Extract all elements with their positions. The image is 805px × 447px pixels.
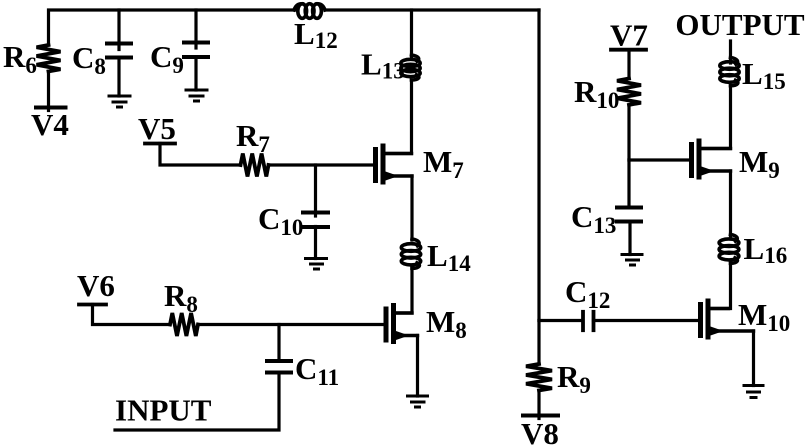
wire C8 drop — [117, 10, 120, 50]
capacitor C13 — [617, 208, 641, 222]
wire V7 to R10 — [627, 50, 630, 79]
wire C11 to INPUT — [115, 373, 279, 431]
wire R7 to M7 gate — [269, 163, 374, 166]
inductor L14 — [401, 239, 420, 268]
wire M10 source to ground — [752, 331, 755, 386]
resistor R9 — [526, 364, 552, 390]
wire M9 gate lead — [629, 158, 689, 161]
wire L13 to M7 drain — [384, 80, 412, 154]
svg-text:V6: V6 — [77, 268, 115, 303]
ground C10 — [306, 259, 327, 270]
transistor M7 — [376, 146, 413, 182]
capacitor C8 — [107, 44, 131, 58]
wire M7 source to L14 — [410, 176, 413, 240]
wire C8 to ground — [117, 58, 120, 97]
svg-text:OUTPUT: OUTPUT — [675, 7, 805, 42]
wire R10 to junction — [627, 105, 630, 160]
inductor L16 — [719, 235, 739, 264]
capacitor C9 — [184, 43, 208, 58]
wire OUTPUT to L15 — [729, 41, 732, 63]
wire L15 to M9 drain — [699, 86, 731, 149]
wire C11 drop — [277, 325, 280, 362]
ground C8 — [109, 96, 130, 107]
wire M8 source to ground — [416, 336, 419, 397]
wire junction to C13 — [627, 160, 630, 208]
transistor M10 — [701, 301, 754, 337]
svg-text:V8: V8 — [521, 416, 559, 447]
ground C13 — [622, 255, 642, 266]
inductor L13 — [401, 55, 420, 80]
wire C10 to ground — [314, 227, 317, 259]
inductor L12 — [294, 4, 325, 19]
terminal V5 — [145, 142, 175, 146]
inductor L15 — [720, 58, 739, 86]
terminal V8 — [523, 414, 558, 418]
resistor R6 — [37, 45, 61, 71]
wire right column from rail — [537, 10, 540, 321]
wire L13 drop — [410, 10, 413, 57]
wire L14 to M8 drain — [394, 268, 412, 313]
ground M10 — [744, 386, 763, 398]
wire R6 to V4 — [47, 71, 50, 110]
capacitor C11 — [267, 361, 291, 373]
terminal V4 — [36, 106, 66, 110]
svg-text:V5: V5 — [138, 111, 176, 146]
terminal V7 — [611, 48, 646, 52]
wire junction to C12 — [539, 319, 582, 322]
wire V5 to R7 — [160, 144, 241, 166]
wire top rail left segment — [49, 10, 297, 45]
resistor R7 — [241, 154, 269, 177]
transistor M8 — [386, 306, 418, 342]
wire C9 drop — [194, 10, 197, 48]
svg-text:INPUT: INPUT — [115, 393, 212, 428]
wire R8 to M8 gate — [198, 323, 384, 326]
wire C10 drop — [314, 165, 317, 216]
wire C12 to M10 gate — [594, 319, 699, 322]
capacitor C12 — [583, 312, 594, 330]
wire M9 source to L16 — [729, 171, 732, 239]
wire C13 to ground — [628, 222, 631, 255]
wire R9 top lead — [537, 321, 540, 365]
ground C9 — [186, 90, 207, 101]
svg-text:V4: V4 — [31, 107, 69, 142]
wire C9 to ground — [194, 57, 197, 90]
resistor R10 — [617, 79, 641, 105]
terminal V6 — [79, 303, 106, 307]
wire V6 to R8 — [93, 305, 171, 325]
wire R9 to V8 — [537, 391, 540, 419]
svg-text:V7: V7 — [610, 18, 648, 53]
ground M8 — [408, 396, 428, 407]
resistor R8 — [170, 313, 198, 336]
wire top rail right segment — [325, 8, 539, 11]
capacitor C10 — [303, 213, 328, 228]
transistor M9 — [692, 141, 731, 177]
wire L16 to M10 drain — [709, 263, 731, 308]
